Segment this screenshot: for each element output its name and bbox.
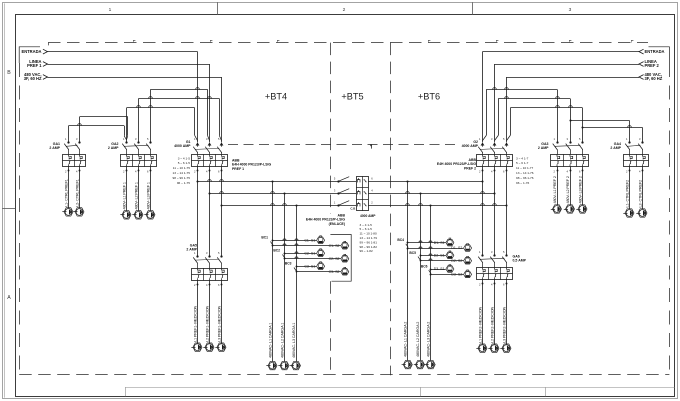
svg-text:4000 AMP: 4000 AMP <box>360 214 376 218</box>
breaker GA1 frame <box>63 155 86 167</box>
tap wire GA3 pole1 riser <box>557 89 559 142</box>
top band column tick 2-3 <box>472 2 474 15</box>
feeder BC4 S2 connector <box>464 245 472 252</box>
GA2 outgoing wire 480V- L2 PREF 1 <box>138 167 140 211</box>
svg-text:96 ~ 1-76: 96 ~ 1-76 <box>516 181 529 185</box>
left ENTRADA arrow <box>43 49 48 54</box>
terminal 480V- L3 PREF 2 <box>578 205 587 213</box>
terminal 480V- L1 PREF 2 <box>553 205 562 213</box>
left 480 VAC arrow <box>43 75 48 80</box>
breaker G1 frame <box>192 155 228 167</box>
feeder BC5 S2 wire <box>420 260 463 262</box>
feeder BC1 S2 connector <box>341 243 349 250</box>
busbar section center tick <box>371 144 373 148</box>
svg-text:D3- S1: D3- S1 <box>434 267 445 271</box>
terminal L2- CTRL PREF2 <box>638 209 647 217</box>
bus line 1 left <box>198 181 357 183</box>
svg-text:BC3: BC3 <box>285 262 292 266</box>
svg-text:480V- L1 PREF 2: 480V- L1 PREF 2 <box>553 176 557 203</box>
section divider BT4/BT5 lower dashed <box>330 281 332 375</box>
svg-text:1: 1 <box>109 7 112 13</box>
feeder BC1 S2 wire <box>273 245 341 247</box>
svg-text:C1- S2: C1- S2 <box>329 244 340 248</box>
right 480 VAC wire <box>507 77 640 79</box>
svg-text:98 ~ 96 1-75: 98 ~ 96 1-75 <box>173 176 191 180</box>
enclosure reference marks <box>133 40 135 42</box>
breaker GA5 pole 1 <box>196 255 198 257</box>
svg-text:C1- S1: C1- S1 <box>304 239 315 243</box>
enclosure bottom dashed edge <box>19 374 669 376</box>
left ENTRADA drop wire <box>197 52 199 143</box>
left LINEA PREF 1 wire <box>48 64 210 66</box>
terminal L1- CTRL PREF2 <box>625 209 634 217</box>
tap wire GA2 pole3 riser <box>150 89 152 142</box>
feeder BC1 S1 wire <box>273 240 317 242</box>
svg-text:L2 PREF1- MEDICION: L2 PREF1- MEDICION <box>205 305 209 342</box>
right ENTRADA wire <box>483 51 640 53</box>
busbar section dashed line <box>228 144 455 146</box>
breaker G2 pole 3 <box>505 142 509 145</box>
svg-text:0,5 AMP: 0,5 AMP <box>513 259 527 263</box>
GA5 outgoing wire L2 PREF1- MEDICION <box>209 280 211 343</box>
svg-text:BC2: BC2 <box>273 249 280 253</box>
feeder BC5 S1 wire <box>420 255 446 257</box>
tap wire GA3 pole3 from G2 pole3 <box>510 107 582 109</box>
feeder BC2 tap switch <box>283 255 285 259</box>
terminal 480V- L2 PREF 1 <box>134 211 143 219</box>
svg-text:5 ~ 6 1-5: 5 ~ 6 1-5 <box>178 161 191 165</box>
GA6 outgoing wire L2 PREF2- MEDICION <box>494 280 496 345</box>
GA2 outgoing wire 480V- L1 PREF 1 <box>126 167 128 211</box>
svg-text:480VAC- L3 CARGA 2: 480VAC- L3 CARGA 2 <box>427 322 431 357</box>
section divider BT4/BT5 dashed <box>330 43 332 214</box>
svg-text:480VAC- L1 CARGA 1: 480VAC- L1 CARGA 1 <box>268 323 272 358</box>
svg-text:2: 2 <box>343 7 346 13</box>
breaker G1 pole 3 <box>220 142 224 145</box>
svg-text:ENTRADA: ENTRADA <box>645 49 665 54</box>
breaker GA2 pole 3 <box>149 141 151 143</box>
svg-text:3 ~ 4 1-5: 3 ~ 4 1-5 <box>178 156 191 160</box>
tap wire GA2 pole2 from G1 pole3 <box>139 98 220 100</box>
svg-text:L3 PREF2- MEDICION: L3 PREF2- MEDICION <box>502 306 506 343</box>
breaker GA6 pole 2 <box>493 254 495 256</box>
right LINEA drop wire <box>494 64 496 142</box>
svg-text:2 AMP: 2 AMP <box>49 146 60 150</box>
tap wire GA3 pole3 riser <box>582 108 584 142</box>
feeder BC3 S2 wire <box>296 271 341 273</box>
svg-text:13 ~ 14 1-76: 13 ~ 14 1-76 <box>516 171 534 175</box>
enclosure left dashed edge <box>19 63 21 374</box>
load terminal CARGA2 L1 <box>403 360 412 368</box>
G1 feeder down to GA5 pole1 <box>197 167 199 257</box>
feeder BC1 tap switch <box>271 242 273 246</box>
GA5 outgoing wire L1 PREF1- MEDICION <box>197 280 199 343</box>
breaker GA2 pole 2 <box>137 141 139 143</box>
svg-text:C3- S1: C3- S1 <box>304 265 315 269</box>
load wire 480VAC CARGA 1 L3 <box>296 206 298 362</box>
feeder BC6 S1 wire <box>431 269 446 271</box>
enclosure top dashed edge <box>48 42 648 44</box>
terminal L1 PREF2- MEDICION <box>478 344 487 352</box>
breaker GA4 frame <box>624 155 649 167</box>
svg-text:L2 PREF2- MEDICION: L2 PREF2- MEDICION <box>490 306 494 343</box>
svg-text:5 ~ 6 1-5: 5 ~ 6 1-5 <box>360 227 373 231</box>
tie breaker CB terminal box <box>357 177 369 211</box>
svg-text:480V- L1 PREF 1: 480V- L1 PREF 1 <box>122 182 126 209</box>
breaker GA1 pole 2 <box>78 141 80 143</box>
tap wire to GA1 pole1 <box>69 125 125 127</box>
left 480 VAC drop wire <box>221 77 223 142</box>
tap wire GA2 pole2 riser <box>138 99 140 143</box>
svg-text:96 ~ 1-75: 96 ~ 1-75 <box>177 181 190 185</box>
tap wire GA3 pole2 from G2 pole2 <box>498 98 570 100</box>
svg-text:BC4: BC4 <box>397 238 404 242</box>
enclosure right dashed edge <box>669 63 671 374</box>
svg-text:11 ~ 10 1-77: 11 ~ 10 1-77 <box>516 166 534 170</box>
GA4 outgoing wire L2- CTRL PREF2 <box>642 167 644 209</box>
tap wire to GA1 pole2 <box>80 116 128 118</box>
left LINEA drop wire <box>209 64 211 142</box>
right ENTRADA drop wire <box>482 52 484 143</box>
G2 feeder down to GA6 pole2 <box>494 167 496 256</box>
svg-text:L1- CTRL PREF2: L1- CTRL PREF2 <box>625 180 629 208</box>
svg-text:98 ~ 96 1-76: 98 ~ 96 1-76 <box>516 176 534 180</box>
feeder BC4 S1 connector <box>446 239 454 246</box>
svg-text:D1- S2: D1- S2 <box>451 246 462 250</box>
svg-text:2 AMP: 2 AMP <box>538 146 549 150</box>
breaker GA3 linkage <box>555 145 581 146</box>
svg-text:2 AMP: 2 AMP <box>108 146 119 150</box>
svg-text:11 ~ 10 1-80: 11 ~ 10 1-80 <box>360 232 378 236</box>
GA6 outgoing wire L1 PREF2- MEDICION <box>482 280 484 345</box>
feeder BC2 S2 wire <box>285 258 341 260</box>
feeder BC2 S2 connector <box>341 256 349 263</box>
svg-text:+BT5: +BT5 <box>341 92 363 102</box>
right ENTRADA arrow <box>639 49 644 54</box>
breaker GA4 linkage <box>627 145 640 146</box>
section divider BT5/BT6 dashed <box>390 43 392 376</box>
load terminal CARGA2 L2 <box>416 360 425 368</box>
bottom strip tick 2 <box>420 387 422 396</box>
svg-text:3 ~ 4 1-5: 3 ~ 4 1-5 <box>360 223 373 227</box>
svg-text:98 ~ 96 1-82: 98 ~ 96 1-82 <box>360 245 378 249</box>
svg-text:L2- CTRL PREF1: L2- CTRL PREF1 <box>75 179 79 207</box>
enclosure top edge start tick <box>48 43 50 46</box>
svg-text:PREF 2: PREF 2 <box>464 166 476 170</box>
load terminal CARGA1 L1 <box>268 361 277 369</box>
right LINEA PREF 2 wire <box>495 64 640 66</box>
terminal L3 PREF2- MEDICION <box>502 344 511 352</box>
GA2 outgoing wire 480V- L3 PREF 1 <box>150 167 152 211</box>
breaker G1 linkage <box>195 148 219 149</box>
bus line 3 left <box>222 205 357 207</box>
breaker GA5 linkage <box>195 259 219 260</box>
breaker G2 frame <box>477 155 513 167</box>
svg-text:480V- L3 PREF 2: 480V- L3 PREF 2 <box>578 176 582 203</box>
breaker GA4 pole 1 <box>628 141 630 143</box>
svg-text:L1 PREF2- MEDICION: L1 PREF2- MEDICION <box>478 306 482 343</box>
breaker GA2 pole 1 <box>125 141 127 143</box>
top band column tick 1-2 <box>217 2 219 15</box>
terminal 480V- L2 PREF 2 <box>566 205 575 213</box>
svg-text:A: A <box>7 295 11 301</box>
svg-text:BC1: BC1 <box>261 236 268 240</box>
breaker GA5 pole 3 <box>220 255 222 257</box>
GA4 outgoing wire L1- CTRL PREF2 <box>629 167 631 209</box>
svg-text:L1 PREF1- MEDICION: L1 PREF1- MEDICION <box>193 305 197 342</box>
svg-text:4000 AMP: 4000 AMP <box>462 144 479 148</box>
bottom title strip line <box>125 387 675 389</box>
load wire 480VAC CARGA 2 L3 <box>430 206 432 361</box>
feeder BC3 S2 connector <box>341 269 349 276</box>
G2 feeder down to GA6 pole1 <box>482 167 484 256</box>
tap wire GA2 pole1 riser <box>126 108 128 142</box>
bottom strip tick 1 <box>125 387 127 396</box>
feeder BC3 S1 connector <box>317 263 325 270</box>
svg-text:L3 PREF1- MEDICION: L3 PREF1- MEDICION <box>217 305 221 342</box>
svg-text:2 AMP: 2 AMP <box>186 247 197 251</box>
enclosure left corner bracket <box>19 47 40 63</box>
svg-text:480V- L3 PREF 1: 480V- L3 PREF 1 <box>146 182 150 209</box>
breaker GA3 pole 2 <box>569 141 571 143</box>
svg-text:13 ~ 14 1-75: 13 ~ 14 1-75 <box>173 171 191 175</box>
bus line 1 right <box>368 181 482 183</box>
terminal L2- CTRL PREF1 <box>75 208 84 216</box>
right LINEA PREF 2 arrow <box>639 62 644 67</box>
feeder BC2 S1 connector <box>317 250 325 257</box>
svg-text:99 ~ 96 1-81: 99 ~ 96 1-81 <box>360 240 378 244</box>
feeder BC5 tap switch <box>418 257 420 261</box>
terminal 480V- L3 PREF 1 <box>146 211 155 219</box>
feeder BC2 S1 wire <box>285 253 317 255</box>
load terminal CARGA1 L2 <box>280 361 289 369</box>
load wire 480VAC CARGA 2 L2 <box>420 194 422 361</box>
breaker GA6 pole 3 <box>505 254 507 256</box>
breaker G1 pole 2 <box>208 142 212 145</box>
load terminal CARGA1 L3 <box>292 361 301 369</box>
load wire 480VAC CARGA 2 L1 <box>407 182 409 361</box>
breaker GA6 frame <box>477 268 513 280</box>
breaker GA3 pole 1 <box>556 141 558 143</box>
GA1 outgoing wire L1- CTRL PREF1 <box>68 167 70 208</box>
tap wire GA2 pole3 from G1 pole2 <box>151 89 208 91</box>
svg-text:BC6: BC6 <box>421 264 428 268</box>
breaker G2 pole 1 <box>481 142 485 145</box>
feeder BC3 tap switch <box>294 268 296 272</box>
svg-text:ENTRADA: ENTRADA <box>21 49 41 54</box>
svg-text:11 ~ 10 1-75: 11 ~ 10 1-75 <box>173 166 191 170</box>
tap wire GA3 pole1 from G2 pole1 <box>486 89 557 91</box>
svg-text:+BT4: +BT4 <box>265 92 287 102</box>
load wire 480VAC CARGA 1 L1 <box>272 182 274 362</box>
svg-text:D3- S2: D3- S2 <box>451 273 462 277</box>
svg-text:480VAC- L3 CARGA 1: 480VAC- L3 CARGA 1 <box>292 323 296 358</box>
GA3 outgoing wire 480V- L2 PREF 2 <box>570 167 572 205</box>
svg-text:L2- CTRL PREF2: L2- CTRL PREF2 <box>638 180 642 208</box>
feeder BC5 S1 connector <box>446 252 454 259</box>
svg-text:+BT6: +BT6 <box>418 92 440 102</box>
bus line 3 right <box>368 205 506 207</box>
breaker GA1 linkage <box>66 145 77 146</box>
bus line 2 right <box>368 193 494 195</box>
feeder BC6 S2 wire <box>431 274 464 276</box>
left LINEA PREF 1 arrow <box>43 62 48 67</box>
breaker GA2 frame <box>121 155 157 167</box>
svg-text:480VAC- L2 CARGA 1: 480VAC- L2 CARGA 1 <box>280 323 284 358</box>
svg-text:(ENLACE): (ENLACE) <box>329 222 345 226</box>
svg-text:BC5: BC5 <box>409 251 416 255</box>
breaker GA3 pole 3 <box>581 141 583 143</box>
svg-text:C.B: C.B <box>350 206 355 210</box>
bus line 2 left <box>210 193 357 195</box>
terminal L1 PREF1- MEDICION <box>193 343 202 351</box>
tie breaker pole 1 <box>337 180 339 182</box>
G1 feeder down to GA5 pole2 <box>209 167 211 257</box>
svg-text:C2- S2: C2- S2 <box>329 257 340 261</box>
svg-text:D2- S2: D2- S2 <box>451 259 462 263</box>
terminal 480V- L1 PREF 1 <box>122 211 131 219</box>
feeder BC6 S2 connector <box>464 271 472 278</box>
feeder BC6 tap switch <box>429 270 431 274</box>
breaker G2 linkage <box>480 148 504 149</box>
feeder BC3 S1 wire <box>296 266 316 268</box>
breaker GA4 pole 2 <box>641 141 643 143</box>
feeder BC5 S2 connector <box>464 258 472 265</box>
svg-text:3: 3 <box>569 7 572 13</box>
svg-text:96 ~ 1-82: 96 ~ 1-82 <box>360 249 373 253</box>
right 480 VAC arrow <box>639 75 644 80</box>
tap wire GA2 pole1 from G1 pole1 <box>127 107 195 109</box>
tap wire GA3 pole2 riser <box>570 99 572 143</box>
left band row tick <box>2 208 15 210</box>
breaker GA6 linkage <box>480 258 504 259</box>
GA3 outgoing wire 480V- L1 PREF 2 <box>557 167 559 205</box>
GA5 outgoing wire L3 PREF1- MEDICION <box>221 280 223 343</box>
svg-text:B: B <box>7 70 11 76</box>
svg-text:5 ~ 6 1-7: 5 ~ 6 1-7 <box>516 161 529 165</box>
svg-text:480VAC- L1 CARGA 2: 480VAC- L1 CARGA 2 <box>404 322 408 357</box>
breaker G2 pole 2 <box>493 142 497 145</box>
svg-text:D2- S1: D2- S1 <box>434 254 445 258</box>
right 480 VAC drop wire <box>506 77 508 142</box>
svg-text:2 AMP: 2 AMP <box>610 146 621 150</box>
terminal L2 PREF2- MEDICION <box>490 344 499 352</box>
breaker GA5 pole 2 <box>208 255 210 257</box>
svg-text:4000 AMP: 4000 AMP <box>174 144 191 148</box>
left 480 VAC wire <box>48 77 222 79</box>
left ENTRADA wire <box>48 51 198 53</box>
G1 feeder down to GA5 pole3 <box>221 167 223 257</box>
breaker GA2 linkage <box>124 145 148 146</box>
terminal L1- CTRL PREF1 <box>64 208 73 216</box>
terminal L3 PREF1- MEDICION <box>217 343 226 351</box>
breaker G1 pole 1 <box>196 142 200 145</box>
feeder BC6 S1 connector <box>446 266 454 273</box>
breaker GA3 frame <box>551 155 589 167</box>
feeder BC4 tap switch <box>406 244 408 248</box>
tap wire to GA4 pole1 <box>570 120 630 122</box>
svg-text:480V- L2 PREF 1: 480V- L2 PREF 1 <box>134 182 138 209</box>
GA3 outgoing wire 480V- L3 PREF 2 <box>582 167 584 205</box>
svg-text:PREF 1: PREF 1 <box>232 167 244 171</box>
feeder BC4 S2 wire <box>408 248 464 250</box>
breaker GA6 pole 1 <box>481 254 483 256</box>
breaker GA5 frame <box>192 269 228 281</box>
G2 feeder down to GA6 pole3 <box>506 167 508 256</box>
terminal L2 PREF1- MEDICION <box>205 343 214 351</box>
bottom strip tick 3 <box>545 387 547 396</box>
svg-text:C3- S2: C3- S2 <box>329 270 340 274</box>
svg-text:L1- CTRL PREF1: L1- CTRL PREF1 <box>64 179 68 207</box>
tap wire to GA4 pole2 <box>583 127 643 129</box>
svg-text:13 ~ 14 1-79: 13 ~ 14 1-79 <box>360 236 378 240</box>
svg-text:PREF 2: PREF 2 <box>645 63 660 68</box>
svg-text:3F, 60 HZ: 3F, 60 HZ <box>645 76 663 81</box>
tie breaker pole 2 <box>337 192 339 194</box>
feeder BC1 S1 connector <box>317 237 325 244</box>
svg-text:3F, 60 HZ: 3F, 60 HZ <box>24 76 42 81</box>
load terminal CARGA2 L3 <box>426 360 435 368</box>
svg-text:D1- S1: D1- S1 <box>434 241 445 245</box>
GA1 outgoing wire L2- CTRL PREF1 <box>79 167 81 208</box>
svg-text:PREF 1: PREF 1 <box>27 63 42 68</box>
tie breaker pole 3 <box>337 204 339 206</box>
breaker GA1 pole 1 <box>67 141 69 143</box>
svg-text:3 ~ 4 1-7: 3 ~ 4 1-7 <box>516 156 529 160</box>
section divider BT4/BT5 jog around outgoing terminals <box>330 235 351 282</box>
svg-text:C2- S1: C2- S1 <box>304 252 315 256</box>
GA6 outgoing wire L3 PREF2- MEDICION <box>506 280 508 345</box>
enclosure right corner bracket <box>649 47 670 63</box>
feeder BC4 S1 wire <box>408 242 446 244</box>
svg-text:480VAC- L2 CARGA 2: 480VAC- L2 CARGA 2 <box>416 322 420 357</box>
svg-text:480V- L2 PREF 2: 480V- L2 PREF 2 <box>566 176 570 203</box>
load wire 480VAC CARGA 1 L2 <box>284 194 286 362</box>
